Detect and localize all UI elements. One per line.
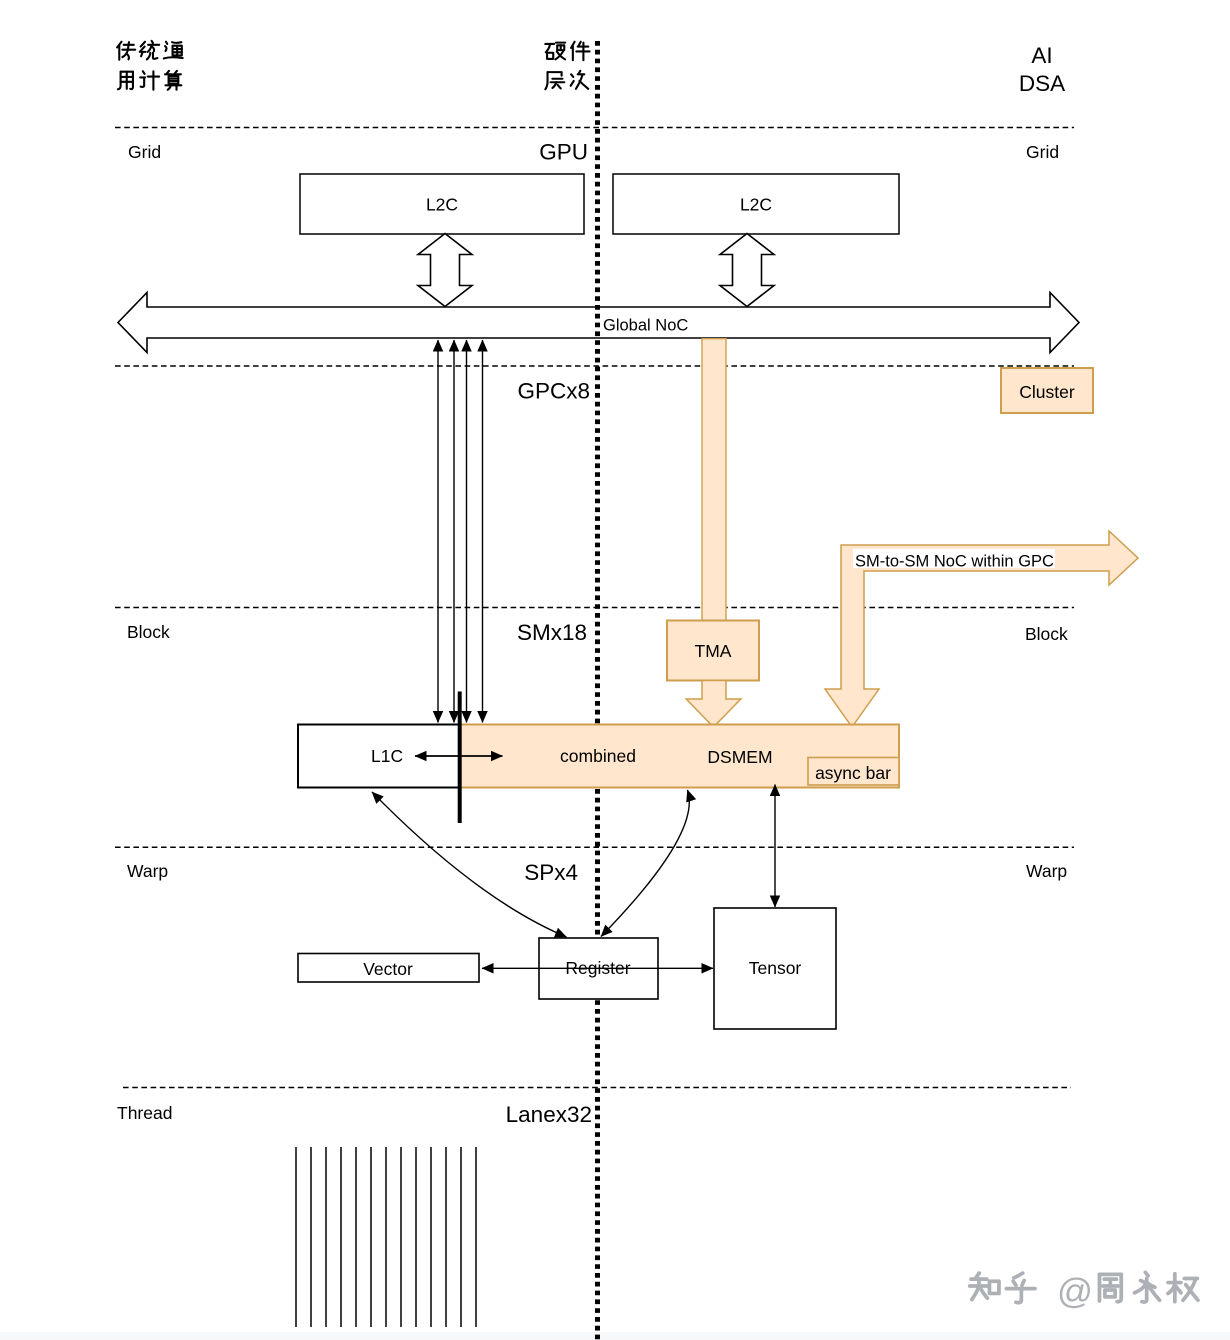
svg-text:Block: Block: [127, 622, 170, 642]
thin double arrow 3 NoC to L1C: [466, 340, 468, 723]
box async bar: [808, 758, 899, 786]
orange band NoC to TMA: [702, 339, 726, 622]
hollow double arrow L2C right to NoC: [720, 234, 774, 307]
svg-text:Lanex32: Lanex32: [506, 1102, 592, 1127]
box L2C left: [300, 174, 584, 234]
svg-text:L2C: L2C: [426, 195, 458, 215]
header left: 传统通用计算: [117, 41, 183, 90]
svg-text:Cluster: Cluster: [1019, 382, 1075, 402]
svg-text:SM-to-SM NoC within GPC: SM-to-SM NoC within GPC: [855, 553, 1054, 571]
svg-text:Block: Block: [1025, 624, 1068, 644]
svg-text:SPx4: SPx4: [524, 860, 578, 885]
box Vector: [298, 954, 479, 983]
dashed row line Lane: [123, 1087, 1071, 1089]
svg-text:AI: AI: [1031, 43, 1052, 68]
orange arrow TMA to DSMEM: [686, 681, 741, 728]
svg-text:Thread: Thread: [117, 1103, 172, 1123]
svg-text:Grid: Grid: [128, 142, 161, 162]
svg-text:Tensor: Tensor: [749, 958, 802, 978]
svg-text:async bar: async bar: [815, 763, 891, 783]
svg-text:SMx18: SMx18: [517, 620, 587, 645]
svg-text:Warp: Warp: [127, 861, 168, 881]
hollow double arrow L2C left to NoC: [418, 234, 472, 307]
curved double arrow L1C to Register: [372, 792, 567, 937]
svg-text:DSMEM: DSMEM: [707, 747, 772, 767]
svg-text:DSA: DSA: [1019, 71, 1065, 96]
box Tensor: [714, 908, 836, 1029]
header center: 硬件层次: [545, 42, 589, 90]
bottom gray strip: [0, 1332, 1230, 1340]
box L1C: [298, 725, 460, 788]
thin double arrow 4 NoC to L1C: [482, 340, 484, 723]
svg-text:Grid: Grid: [1026, 142, 1059, 162]
thin double arrow 1 NoC to L1C: [437, 340, 439, 723]
box combined DSMEM: [460, 725, 900, 788]
svg-text:GPU: GPU: [539, 140, 588, 165]
svg-text:Global NoC: Global NoC: [603, 316, 688, 334]
svg-text:TMA: TMA: [695, 641, 732, 661]
vertical double arrow DSMEM to Tensor: [774, 785, 776, 908]
box Register: [539, 938, 658, 999]
curved double arrow DSMEM to Register: [601, 790, 689, 937]
dashed row line GPC: [115, 365, 1074, 367]
header right: AI DSA: [1019, 43, 1065, 96]
dashed row line SM: [115, 607, 1074, 609]
svg-text:L2C: L2C: [740, 195, 772, 215]
svg-text:Vector: Vector: [363, 959, 413, 979]
svg-text:Warp: Warp: [1026, 861, 1067, 881]
dashed row line Grid: [115, 127, 1074, 129]
box L2C right: [613, 174, 899, 234]
dashed row line SP: [115, 846, 1074, 848]
svg-text:combined: combined: [560, 746, 636, 766]
long double arrow Vector to Tensor through Register: [482, 967, 713, 969]
box TMA: [667, 621, 759, 681]
vertical dotted divider: [595, 41, 600, 1340]
lane lines: [296, 1147, 476, 1327]
double arrow L1C to combined: [415, 755, 503, 757]
Global NoC double arrow: [118, 293, 1079, 353]
svg-text:@: @: [1057, 1271, 1093, 1311]
box Cluster: [1001, 368, 1093, 413]
thin double arrow 2 NoC to L1C: [453, 340, 455, 723]
thick black divider line: [458, 692, 462, 824]
watermark 知乎 @周永权: [970, 1272, 1198, 1302]
svg-text:GPCx8: GPCx8: [517, 379, 590, 404]
svg-text:L1C: L1C: [371, 746, 403, 766]
orange elbow arrow SM-to-SM NoC: [825, 531, 1138, 727]
